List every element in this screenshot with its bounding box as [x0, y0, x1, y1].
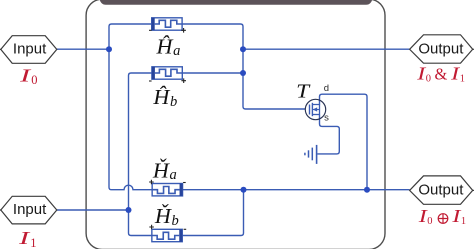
- memristor H-check-a: [152, 184, 182, 196]
- node C junction dot: [240, 70, 246, 76]
- svg-text:I0: I0: [416, 63, 431, 84]
- minus sign of H-hat-b: [149, 80, 152, 82]
- svg-text:s: s: [324, 113, 329, 124]
- node D junction dot: [126, 207, 132, 213]
- plus sign of H-check-a: [149, 180, 154, 185]
- minus sign of H-check-b: [184, 228, 187, 230]
- wire memristor Hb-check up to node E: [181, 190, 244, 236]
- svg-text:I1: I1: [450, 63, 465, 84]
- svg-text:Input: Input: [13, 201, 47, 218]
- minus sign of H-check-a: [183, 182, 186, 184]
- svg-text:Ȟa: Ȟa: [152, 158, 177, 183]
- wire Input I1 to node D: [57, 209, 129, 211]
- svg-text:T: T: [296, 81, 310, 102]
- svg-text:Output: Output: [418, 40, 464, 57]
- node F junction dot: [364, 187, 370, 193]
- wire transistor source to ground: [317, 115, 339, 154]
- wire memristor Hb-hat right lead to node C: [181, 72, 243, 74]
- svg-text:Output: Output: [418, 182, 464, 199]
- Input I1 hexagon: [0, 209, 1, 211]
- wire node A up to memristor Ha-hat: [109, 24, 154, 49]
- wire node B down through node C to transistor gate: [243, 49, 305, 109]
- Output 2 hexagon: [473, 189, 474, 191]
- wire memristor Ha-check to node E and Output2: [181, 189, 410, 191]
- wire node A down to memristor Ha-check with hop over vertical: [109, 49, 155, 190]
- transistor channel bar: [311, 103, 313, 116]
- xor circle-plus symbol: [438, 214, 448, 224]
- svg-text:I0: I0: [19, 65, 38, 87]
- transistor T body circle: [305, 99, 325, 119]
- svg-text:d: d: [324, 83, 329, 94]
- node E junction dot: [241, 187, 247, 193]
- svg-text:I0: I0: [417, 206, 432, 227]
- ground: [305, 145, 317, 164]
- wire memristor Ha-hat to node B and Output1: [181, 24, 410, 49]
- Output 1 hexagon: [473, 48, 474, 50]
- node B junction dot: [240, 46, 246, 52]
- wire transistor drain to node F: [320, 94, 368, 190]
- svg-text:I1: I1: [18, 228, 37, 249]
- memristor H-check-b: [152, 229, 182, 241]
- svg-text:Ĥa: Ĥa: [155, 34, 180, 59]
- transistor source tap: [312, 114, 319, 116]
- outer enclosure box: [86, 0, 385, 249]
- svg-text:Ĥb: Ĥb: [152, 85, 177, 110]
- plus sign of H-hat-b: [181, 78, 186, 83]
- title bar (cropped box top): [100, 0, 373, 5]
- transistor body arrow: [313, 109, 320, 111]
- minus sign of H-hat-a: [149, 29, 152, 31]
- transistor gate bar: [309, 105, 311, 115]
- memristor H-hat-a: [152, 18, 182, 30]
- memristor H-hat-b: [152, 67, 182, 79]
- plus sign of H-check-b: [149, 225, 154, 230]
- svg-text:Ȟb: Ȟb: [154, 204, 179, 229]
- plus sign of H-hat-a: [181, 28, 186, 33]
- svg-text:I1: I1: [451, 206, 466, 227]
- node A junction dot: [106, 46, 112, 52]
- wire memristor Hb-hat left lead down to node D and memristor Hb-check: [129, 73, 155, 236]
- svg-text:Input: Input: [13, 40, 47, 57]
- svg-text:&: &: [435, 65, 448, 84]
- Input I0 hexagon: [0, 48, 1, 50]
- transistor drain tap: [312, 105, 319, 115]
- wire Input I0 to node A: [57, 48, 109, 50]
